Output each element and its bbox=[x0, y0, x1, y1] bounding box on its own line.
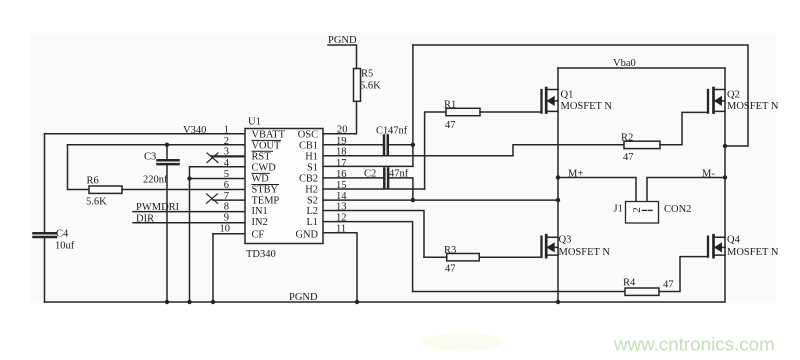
svg-text:PGND: PGND bbox=[289, 292, 318, 303]
svg-text:OSC: OSC bbox=[298, 129, 318, 140]
wire DIR to IN2 pin9 bbox=[133, 222, 245, 224]
wire top loop bbox=[413, 45, 748, 146]
svg-text:GND: GND bbox=[295, 229, 318, 240]
svg-text:S1: S1 bbox=[307, 162, 318, 173]
wire OSC pin20 to R5 bbox=[323, 101, 357, 133]
svg-text:2: 2 bbox=[631, 207, 643, 213]
pin numbers 1-10 bbox=[220, 125, 231, 235]
wire pin2 down to R6 bbox=[68, 145, 90, 190]
wire C1 to node bbox=[389, 144, 413, 146]
svg-text:CF: CF bbox=[252, 229, 265, 240]
junction S2 M+ line bbox=[556, 198, 560, 202]
svg-text:18: 18 bbox=[336, 147, 347, 158]
wire L1 pin12 down bbox=[323, 222, 413, 292]
no-connect X pin3 RST bbox=[207, 153, 218, 163]
transistor Q2 MOSFET N bbox=[708, 88, 779, 113]
svg-text:CB2: CB2 bbox=[299, 174, 318, 185]
svg-text:MOSFET N: MOSFET N bbox=[559, 247, 611, 258]
junction C3 ground bbox=[165, 300, 169, 304]
svg-text:6: 6 bbox=[224, 180, 229, 191]
wire C4 to bottom rail bbox=[44, 238, 46, 302]
junction C3 VOUT bbox=[165, 143, 169, 147]
resistor R1 bbox=[446, 108, 480, 115]
wire VBATT pin1 from V340 node bbox=[45, 133, 246, 135]
junction ground rail x190 bbox=[187, 300, 191, 304]
capacitor C1 bbox=[384, 136, 388, 155]
svg-text:CWD: CWD bbox=[252, 162, 277, 173]
junction ground rail x357 bbox=[355, 300, 359, 304]
connector J1 CON2 bbox=[614, 202, 692, 224]
svg-text:C2: C2 bbox=[364, 169, 376, 180]
wire CF pin10 bbox=[213, 233, 245, 235]
wire R5 to PGND bbox=[328, 45, 357, 69]
svg-text:DIR: DIR bbox=[136, 214, 154, 225]
wire left rail down to C4 bbox=[44, 134, 46, 232]
svg-text:VOUT: VOUT bbox=[252, 140, 282, 151]
svg-text:R4: R4 bbox=[623, 278, 636, 289]
svg-text:MOSFET N: MOSFET N bbox=[727, 247, 779, 258]
svg-text:TD340: TD340 bbox=[246, 249, 276, 260]
IC U1 pin names bbox=[252, 129, 319, 240]
svg-text:19: 19 bbox=[336, 136, 347, 147]
svg-text:R1: R1 bbox=[444, 100, 456, 111]
wire RST pin3 stub bbox=[212, 155, 245, 157]
svg-text:14: 14 bbox=[336, 191, 347, 202]
svg-text:R3: R3 bbox=[444, 245, 456, 256]
svg-text:16: 16 bbox=[336, 169, 347, 180]
svg-text:1: 1 bbox=[224, 125, 229, 136]
svg-text:CB1: CB1 bbox=[299, 140, 318, 151]
svg-text:5.6K: 5.6K bbox=[360, 81, 381, 92]
svg-text:2: 2 bbox=[224, 136, 229, 147]
svg-text:V340: V340 bbox=[183, 125, 206, 136]
svg-text:10: 10 bbox=[220, 224, 231, 235]
svg-text:5.6K: 5.6K bbox=[86, 197, 107, 208]
capacitor C2 bbox=[384, 169, 388, 188]
svg-text:L1: L1 bbox=[306, 217, 318, 228]
svg-text:7: 7 bbox=[224, 191, 229, 202]
wire H2 pin15 bbox=[323, 188, 425, 190]
wire WD junction down to ground rail bbox=[189, 179, 191, 303]
junction ground rail x213 bbox=[211, 300, 215, 304]
svg-text:47: 47 bbox=[445, 120, 456, 131]
wire PWMDRI to IN1 pin8 bbox=[133, 211, 245, 213]
wire H1 pin18 bbox=[323, 155, 513, 157]
wire S2 pin14 bbox=[323, 199, 558, 201]
svg-text:www.cntronics.com: www.cntronics.com bbox=[613, 334, 775, 355]
svg-text:Q3: Q3 bbox=[559, 235, 572, 246]
junction M+ bbox=[556, 175, 560, 179]
svg-text:M+: M+ bbox=[568, 169, 583, 180]
svg-text:MOSFET N: MOSFET N bbox=[727, 101, 779, 112]
svg-text:IN1: IN1 bbox=[252, 206, 268, 217]
no-connect X pin7 TEMP bbox=[207, 194, 218, 203]
wire C2 right then down to S2 bbox=[389, 178, 413, 200]
wire S1 pin17 bbox=[323, 165, 413, 167]
svg-text:C1: C1 bbox=[376, 126, 388, 137]
svg-text:Q2: Q2 bbox=[727, 90, 740, 101]
svg-text:H1: H1 bbox=[305, 151, 318, 162]
wire GND pin11 to ground rail bbox=[323, 233, 357, 302]
junction Q3 source ground rail bbox=[556, 300, 560, 304]
wire Q1 source down / Q3 drain bbox=[557, 90, 559, 303]
svg-text:VBATT: VBATT bbox=[252, 129, 286, 140]
wire CWD down to WD bbox=[189, 167, 191, 179]
svg-text:Q4: Q4 bbox=[727, 235, 741, 246]
resistor R3 bbox=[424, 256, 447, 258]
svg-text:IN2: IN2 bbox=[252, 217, 268, 228]
svg-text:CON2: CON2 bbox=[664, 204, 691, 215]
svg-text:M-: M- bbox=[702, 169, 715, 180]
resistor R5 bbox=[354, 69, 361, 102]
svg-text:4: 4 bbox=[224, 158, 230, 169]
svg-text:20: 20 bbox=[337, 125, 348, 136]
svg-text:WD: WD bbox=[252, 174, 270, 185]
wire CB1 pin19 to C1 bbox=[323, 144, 383, 146]
capacitor C4 bbox=[34, 233, 57, 237]
svg-text:9: 9 bbox=[224, 213, 229, 224]
svg-text:8: 8 bbox=[224, 202, 229, 213]
svg-text:TEMP: TEMP bbox=[252, 196, 280, 207]
svg-text:C4: C4 bbox=[56, 229, 69, 240]
wire node down to S1 pin17 bbox=[412, 45, 414, 166]
wire Q1 drain to Vba0 bbox=[557, 68, 559, 90]
wire R1 to Q1 gate bbox=[480, 111, 542, 113]
wire CB2 pin16 to C2 bbox=[323, 177, 384, 179]
svg-text:Q1: Q1 bbox=[561, 90, 574, 101]
svg-text:10uf: 10uf bbox=[55, 241, 75, 252]
svg-text:47: 47 bbox=[445, 264, 456, 275]
resistor R2 bbox=[624, 141, 660, 148]
wire Vba0 bbox=[558, 67, 725, 69]
wire jog up to R2 line bbox=[513, 145, 624, 156]
wire CF down to ground rail bbox=[212, 234, 214, 302]
svg-text:47: 47 bbox=[623, 152, 634, 163]
junction C1 node bbox=[411, 143, 415, 147]
wire R4 to Q4 gate bbox=[659, 257, 708, 292]
junction CWD WD bbox=[187, 176, 191, 180]
svg-text:MOSFET N: MOSFET N bbox=[561, 101, 613, 112]
wire L2 pin13 to R3 bbox=[323, 211, 424, 258]
wire C3 bottom to ground rail bbox=[166, 165, 168, 302]
svg-text:J1: J1 bbox=[614, 204, 623, 215]
wire R2 to Q2 gate bbox=[660, 112, 708, 144]
transistor Q3 MOSFET N bbox=[542, 235, 611, 258]
svg-text:H2: H2 bbox=[305, 185, 318, 196]
wire R3 to Q3 gate bbox=[479, 256, 541, 258]
svg-text:47: 47 bbox=[663, 280, 674, 291]
wire M+ bbox=[558, 178, 636, 202]
wire bottom PGND rail bbox=[45, 301, 725, 303]
svg-text:11: 11 bbox=[336, 224, 346, 235]
svg-text:12: 12 bbox=[336, 213, 347, 224]
wire L1 to R4 bbox=[413, 291, 625, 293]
svg-text:47nf: 47nf bbox=[388, 126, 408, 137]
svg-text:PGND: PGND bbox=[328, 35, 357, 46]
wire Q2 source down / Q4 drain bbox=[724, 90, 726, 303]
capacitor C3 bbox=[158, 160, 179, 164]
pin numbers 11-20 bbox=[336, 125, 348, 235]
wire VOUT pin2 left bbox=[68, 144, 246, 146]
resistor R4 bbox=[625, 288, 659, 295]
wire Q2 drain to Vba0 bbox=[724, 68, 726, 90]
junction M- bbox=[723, 175, 727, 179]
IC U1 TD340 bbox=[245, 129, 323, 244]
wire H2 up to R1 bbox=[425, 112, 446, 189]
svg-text:RST: RST bbox=[252, 151, 272, 162]
transistor Q4 MOSFET N bbox=[708, 235, 779, 258]
transistor Q1 MOSFET N bbox=[542, 88, 613, 113]
resistor R6 bbox=[89, 186, 122, 193]
wire C3 top to VOUT wire bbox=[166, 145, 168, 159]
svg-text:STBY: STBY bbox=[252, 185, 279, 196]
junction C2 S2 bbox=[411, 198, 415, 202]
svg-text:3: 3 bbox=[224, 147, 229, 158]
svg-text:PWMDRI: PWMDRI bbox=[136, 202, 180, 213]
wire R6 to STBY pin6 bbox=[122, 189, 245, 191]
svg-text:U1: U1 bbox=[248, 117, 261, 128]
svg-text:15: 15 bbox=[336, 180, 347, 191]
svg-text:S2: S2 bbox=[307, 196, 318, 207]
svg-text:C3: C3 bbox=[144, 152, 156, 163]
svg-text:Vba0: Vba0 bbox=[613, 58, 636, 69]
svg-text:R6: R6 bbox=[87, 176, 99, 187]
svg-text:17: 17 bbox=[336, 158, 347, 169]
svg-text:13: 13 bbox=[336, 202, 347, 213]
svg-text:R2: R2 bbox=[621, 133, 633, 144]
svg-text:5: 5 bbox=[224, 169, 229, 180]
wire TEMP pin7 stub bbox=[213, 199, 245, 201]
wire M- bbox=[647, 178, 725, 202]
svg-text:L2: L2 bbox=[306, 206, 318, 217]
junction top loop Q2 source bbox=[723, 144, 727, 148]
svg-text:R5: R5 bbox=[361, 69, 373, 80]
svg-text:220nf: 220nf bbox=[143, 175, 168, 186]
wire WD pin5 stub bbox=[190, 178, 246, 180]
wire CWD pin4 bbox=[190, 166, 246, 168]
